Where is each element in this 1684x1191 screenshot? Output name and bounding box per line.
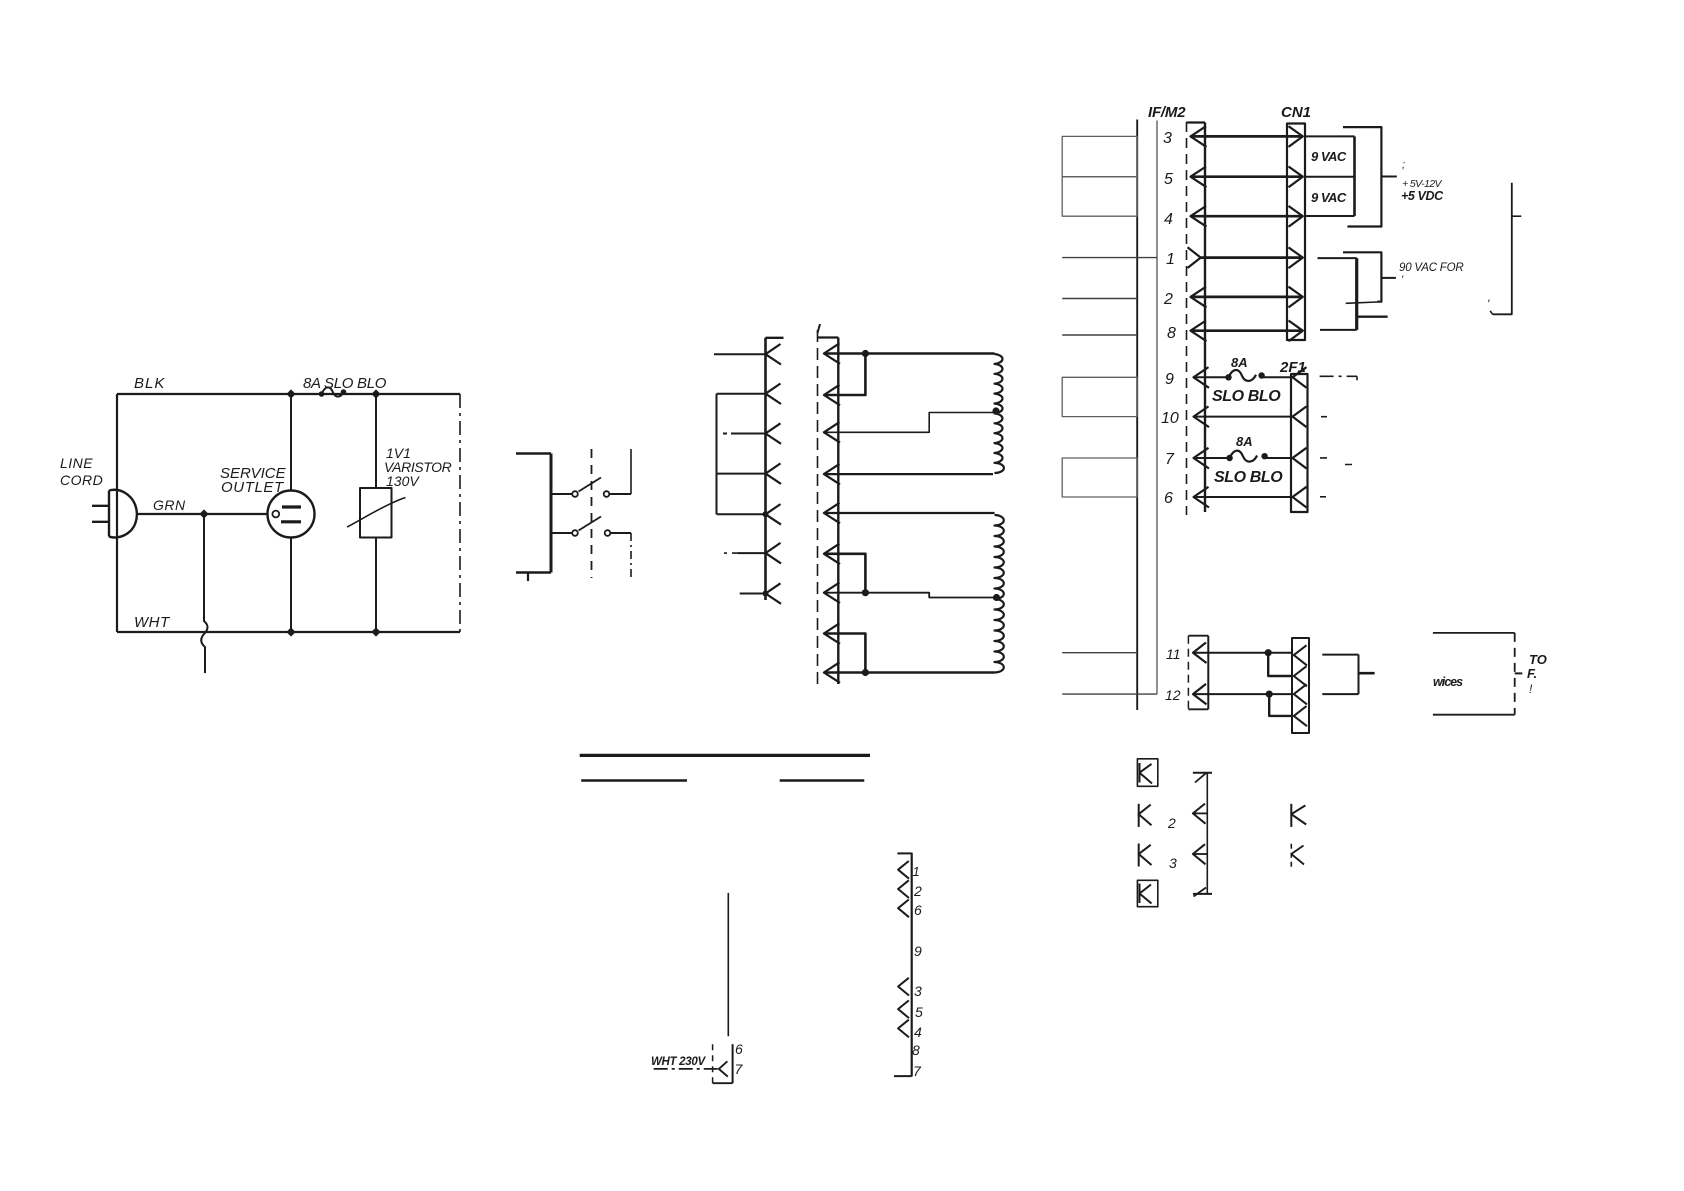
connector CN1 pin row2 arrow <box>1289 287 1303 308</box>
svg-text:wices: wices <box>1433 675 1463 689</box>
node dot winding1 tap <box>992 407 999 414</box>
wire primary pin4 to winding1 bottom <box>824 473 993 475</box>
wire CN1 row4 right <box>1306 215 1355 217</box>
wire WHT 230V dash-dot <box>654 1068 719 1070</box>
label J5 2 <box>1167 815 1176 831</box>
wire switch right upper <box>630 449 632 494</box>
label 90VAC mark <box>1401 274 1404 286</box>
service outlet J2 <box>268 491 315 538</box>
load box fan <box>1433 633 1522 715</box>
svg-text:5: 5 <box>1164 171 1173 188</box>
label 8A row 7 <box>1236 434 1253 449</box>
wire varistor bottom branch <box>375 538 377 633</box>
wire outlet bottom branch <box>290 538 292 633</box>
label GRN <box>153 497 186 513</box>
wire row 11 to J4 <box>1193 652 1292 654</box>
transformer T1 winding 2 <box>995 515 1004 673</box>
transformer core line upper <box>580 754 870 757</box>
connector J9 pin 3 arrow <box>898 978 909 996</box>
connector J2 pin 8 <box>824 623 840 644</box>
secondary wire row 11 <box>1062 652 1137 654</box>
connector J1 pin 5 <box>717 504 782 524</box>
svg-text:2: 2 <box>913 883 922 899</box>
connector CN1 pin row1 arrow <box>1289 247 1303 268</box>
wire stub right of 2F1 row 7 <box>1320 458 1352 465</box>
wire primary pin9 to winding2 bottom <box>824 671 995 674</box>
label IF/M2 pin 2 <box>1163 291 1173 308</box>
label pin 11 <box>1166 646 1181 662</box>
wire IF/M2 to CN1 row 8 <box>1191 329 1303 332</box>
connector J1 pin 2 <box>717 384 782 405</box>
svg-text:SLO BLO: SLO BLO <box>1214 469 1283 486</box>
svg-text:8A: 8A <box>1236 434 1253 449</box>
wire left vertical line cord hot <box>116 394 118 632</box>
fuse 8A SLO BLO row 9 <box>1194 370 1294 381</box>
node dot pin9 jumper <box>862 669 869 676</box>
label IF/M2 pin 6 <box>1164 490 1173 507</box>
svg-text:4: 4 <box>1164 211 1173 228</box>
connector J2 pin 5 <box>824 503 840 524</box>
label 9VAC upper <box>1311 149 1347 164</box>
transformer core line lower right <box>780 779 865 782</box>
switch S1 mechanical link dashed <box>591 449 593 578</box>
label SERVICE OUTLET <box>220 465 287 496</box>
secondary wire row 1 <box>1062 257 1157 259</box>
wire stub right of 2F1 row 9 <box>1320 376 1357 380</box>
label SLO BLO row 9 <box>1212 388 1281 405</box>
label J8 pin 7 <box>735 1061 744 1077</box>
wire 9VAC junction vertical <box>1353 136 1356 216</box>
svg-text:7: 7 <box>735 1061 744 1077</box>
fuse holder 2F1 pin row7 arrow <box>1293 448 1307 469</box>
svg-text:+5 VDC: +5 VDC <box>1401 189 1444 203</box>
node dot pin7 jumper <box>862 589 869 596</box>
wire row 10 <box>1194 416 1294 418</box>
wire primary pin1 to winding top <box>824 352 995 355</box>
wire jumper pin1-pin2 <box>824 354 866 396</box>
connector J2 solid body <box>818 338 839 685</box>
mark far right comma <box>1487 297 1490 311</box>
wire jumper pin6-pin7 <box>824 554 866 593</box>
secondary winding box rows 5-4 <box>1062 177 1137 217</box>
svg-text:3: 3 <box>914 983 922 999</box>
wire CN1 row3 right <box>1306 135 1355 137</box>
label LINE CORD <box>60 455 103 488</box>
label IF/M2 pin 3 <box>1163 130 1172 147</box>
connector J2 label tick <box>818 324 821 333</box>
svg-text:3: 3 <box>1169 855 1177 871</box>
label IF/M2 pin 9 <box>1165 371 1174 388</box>
node junction dot WHT/varistor <box>371 627 380 636</box>
connector J8 pin 7 arrow <box>719 1061 728 1076</box>
secondary winding box rows 3-5 <box>1062 136 1137 176</box>
node dot row 12 branch <box>1266 691 1273 698</box>
switch S1 frame left <box>516 454 551 582</box>
connector CN1 pin row3 arrow <box>1289 126 1303 147</box>
secondary wire row 2 <box>1062 298 1137 300</box>
label IF/M2 pin 10 <box>1161 410 1179 427</box>
svg-text:SLO BLO: SLO BLO <box>1212 388 1281 405</box>
svg-text:2: 2 <box>1163 291 1173 308</box>
fuse F1 8A SLO BLO <box>319 387 347 396</box>
connector J5 pin row2 <box>1139 804 1152 827</box>
secondary winding box rows 7-6 <box>1062 458 1137 497</box>
svg-text:9 VAC: 9 VAC <box>1311 149 1347 164</box>
label IF/M2 pin 5 <box>1164 171 1173 188</box>
svg-text:8: 8 <box>1167 325 1176 342</box>
connector CN1 pin row8 arrow <box>1289 321 1303 342</box>
svg-text:1: 1 <box>913 864 920 879</box>
connector IF/M2 pin 4 arrow <box>1191 206 1207 227</box>
bracket 90VAC group <box>1343 252 1396 303</box>
wire J1 bus pins 2-4-5 <box>716 394 718 515</box>
connector IF/M2 solid body <box>1187 123 1206 513</box>
connector J2 pin 7 <box>824 583 840 604</box>
label 1V1 VARISTOR 130V <box>384 445 452 489</box>
wire stub mid row1-8 <box>1357 316 1388 318</box>
wire row 11 branch down <box>1268 653 1292 676</box>
svg-text:5: 5 <box>915 1004 923 1020</box>
wire CN1 row8 right <box>1320 329 1357 331</box>
connector IF/M2 pin 9 arrow <box>1194 367 1210 388</box>
connector IF/M2 pin 3 arrow <box>1191 126 1207 147</box>
connector J1 pin 6 <box>724 543 781 564</box>
bracket far right <box>1490 183 1521 315</box>
svg-text:LINE: LINE <box>60 455 93 471</box>
connector J2 dashed body <box>817 330 819 684</box>
svg-text:4: 4 <box>914 1024 922 1040</box>
label SLO BLO row 7 <box>1214 469 1283 486</box>
wire stub right of 2F1 row 6 <box>1320 496 1326 498</box>
transformer core line lower left <box>581 779 687 782</box>
connector J3 pin 11 arrow <box>1193 643 1207 664</box>
label IF/M2 <box>1148 104 1186 121</box>
connector J3 body rows 11-12 <box>1188 636 1208 710</box>
svg-text:8A: 8A <box>1231 355 1248 370</box>
label J5 3 <box>1169 855 1177 871</box>
connector J1 pin 4 <box>717 463 782 484</box>
secondary bus vertical 2 <box>1156 121 1158 695</box>
svg-text:IF/M2: IF/M2 <box>1148 104 1186 121</box>
connector J4 pin b arrow <box>1294 666 1307 686</box>
svg-text:130V: 130V <box>386 473 420 489</box>
svg-text:2: 2 <box>1167 815 1176 831</box>
svg-text:8: 8 <box>912 1042 920 1058</box>
connector J4 pin a arrow <box>1294 645 1307 665</box>
label J9 9 <box>914 943 922 959</box>
svg-text:6: 6 <box>1164 490 1173 507</box>
label J9 8 <box>912 1042 920 1058</box>
svg-text:90 VAC FOR: 90 VAC FOR <box>1399 262 1463 274</box>
line cord plug P1 <box>92 490 137 538</box>
varistor RV1 1V1 <box>347 488 406 538</box>
connector J2 pin 3 <box>824 422 840 443</box>
connector J1 pin 3 <box>723 423 781 444</box>
svg-text:CORD: CORD <box>60 472 103 488</box>
connector IF/M2 pin 10 arrow <box>1194 406 1210 427</box>
svg-text:WHT: WHT <box>134 614 171 631</box>
wire CN1 row5 right <box>1306 176 1355 178</box>
wire row 12 to J4 <box>1193 693 1292 695</box>
connector J2 pin 1 <box>824 343 840 364</box>
wire IF/M2 to CN1 row 2 <box>1191 296 1303 299</box>
label WHT 230V <box>651 1056 706 1068</box>
connector IF/M2 pin 6 arrow <box>1194 487 1210 508</box>
wire IF/M2 to CN1 row 4 <box>1191 215 1303 218</box>
secondary wire row 12 <box>1062 693 1157 695</box>
label TO F <box>1527 652 1547 696</box>
label 9VAC lower <box>1311 190 1347 205</box>
connector J7 pin row3 <box>1291 844 1304 869</box>
node junction dot BLK/outlet branch <box>286 389 295 398</box>
svg-text:6: 6 <box>735 1041 743 1057</box>
node junction dot BLK/varistor branch <box>371 389 380 398</box>
label IF/M2 pin 7 <box>1165 451 1175 468</box>
label J9 3 <box>914 983 922 999</box>
svg-text:7: 7 <box>913 1063 922 1079</box>
connector J9 pin 4 arrow <box>898 1020 909 1038</box>
label J9 2 <box>913 883 922 899</box>
connector IF/M2 pin 1 arrow reversed <box>1188 247 1201 268</box>
fuse holder 2F1 body <box>1291 374 1308 512</box>
connector J4 pin d arrow <box>1294 706 1307 726</box>
label J9 4 <box>914 1024 922 1040</box>
svg-text:6: 6 <box>914 902 922 918</box>
label pin 12 <box>1165 687 1181 703</box>
wire varistor top branch <box>375 394 377 488</box>
wire J4 output upper <box>1322 654 1358 656</box>
connector CN1 pin row5 arrow <box>1289 167 1303 188</box>
connector J5 boxed pin top <box>1137 759 1157 787</box>
secondary winding box rows 9-10 <box>1062 377 1137 416</box>
label 90 VAC FOR <box>1399 262 1463 274</box>
connector J9 body <box>894 853 912 1077</box>
svg-text:1: 1 <box>1166 251 1175 268</box>
connector J1 pin 7 <box>740 583 781 604</box>
wire J4 output bracket <box>1359 655 1375 695</box>
node junction dot GRN branch <box>199 509 208 518</box>
wire ground branch with jog <box>201 514 207 673</box>
connector J8 WHT body <box>713 1044 733 1083</box>
connector J1 pin 1 <box>714 344 781 365</box>
svg-text:GRN: GRN <box>153 497 186 513</box>
connector J2 pin 6 <box>824 544 840 565</box>
connector J9 pin 5 arrow <box>898 1000 909 1018</box>
svg-text:8A SLO BLO: 8A SLO BLO <box>303 375 387 392</box>
wire GRN <box>137 513 268 515</box>
connector J6 pin4 arrow partial <box>1194 888 1207 897</box>
svg-text:BLK: BLK <box>134 375 165 392</box>
fuse holder 2F1 pin row10 arrow <box>1293 406 1307 427</box>
label fuse value 8A SLO BLO <box>303 375 387 392</box>
connector J6 pin1 arrow partial <box>1195 773 1207 783</box>
fuse 8A SLO BLO row 7 <box>1194 451 1294 462</box>
connector J3 pin 12 arrow <box>1193 684 1207 705</box>
connector J9 pin 2 arrow <box>898 880 909 898</box>
secondary bus vertical 1 <box>1136 120 1138 711</box>
connector CN1 body <box>1287 124 1305 341</box>
connector J5 boxed pin bottom <box>1137 880 1157 906</box>
connector IF/M2 pin 2 arrow <box>1191 287 1207 308</box>
label 8A row 9 <box>1231 355 1248 370</box>
bracket +5VDC group <box>1343 127 1397 226</box>
node dot row 11 branch <box>1265 649 1272 656</box>
fuse holder 2F1 pin row6 arrow <box>1293 487 1307 508</box>
wire row 6 <box>1194 496 1294 498</box>
svg-text:9: 9 <box>1165 371 1174 388</box>
wire jumper pin8-pin9 <box>824 634 866 673</box>
connector J1 body <box>766 338 784 600</box>
label J9 1 <box>913 864 920 879</box>
label +5VDC line1 <box>1402 159 1405 171</box>
connector IF/M2 dashed body <box>1186 122 1188 515</box>
wire vertical to WHT connector <box>727 893 729 1036</box>
label J8 pin 6 <box>735 1041 743 1057</box>
label IF/M2 pin 8 <box>1167 325 1176 342</box>
svg-text:10: 10 <box>1161 410 1179 427</box>
wire primary tap pin3 <box>824 413 995 433</box>
svg-text:CN1: CN1 <box>1281 104 1311 121</box>
wire stub right of 2F1 row 10 <box>1321 416 1327 418</box>
connector J6 pin3 arrow <box>1193 844 1207 864</box>
connector J6 pin2 arrow <box>1193 804 1207 824</box>
svg-text:WHT 230V: WHT 230V <box>651 1056 706 1068</box>
connector J4 body <box>1292 638 1309 733</box>
connector IF/M2 pin 7 arrow <box>1194 448 1210 469</box>
connector J6 body <box>1193 773 1212 894</box>
label J9 7 <box>913 1063 922 1079</box>
secondary wire row 8 <box>1062 334 1137 336</box>
wire BLK top rail <box>117 393 460 395</box>
svg-text:TO: TO <box>1529 652 1547 667</box>
wire IF/M2 to CN1 row 3 <box>1191 135 1303 138</box>
wire IF/M2 to CN1 row 1 <box>1201 256 1303 259</box>
svg-text:12: 12 <box>1165 687 1181 703</box>
svg-text:11: 11 <box>1166 646 1181 662</box>
svg-text:F.: F. <box>1527 666 1537 681</box>
wire J4 output lower <box>1322 693 1358 695</box>
label IF/M2 pin 1 <box>1166 251 1175 268</box>
wire row 12 branch down <box>1269 694 1292 716</box>
wire CN1 row1 right <box>1318 257 1357 259</box>
wire primary tap pin7 <box>824 593 995 598</box>
label load box script <box>1433 675 1463 689</box>
connector IF/M2 pin 8 arrow <box>1191 321 1207 342</box>
node junction dot WHT/outlet <box>286 627 295 636</box>
connector J2 pin 9 <box>824 662 840 683</box>
wire rows1-8 junction vertical <box>1355 258 1358 330</box>
svg-text:OUTLET: OUTLET <box>221 479 285 496</box>
wire IF/M2 to CN1 row 5 <box>1191 175 1303 178</box>
svg-text:7: 7 <box>1165 451 1175 468</box>
transformer T1 winding 1 <box>995 354 1004 473</box>
fuse holder 2F1 pin row9 arrow <box>1293 367 1307 388</box>
label 2F1 <box>1279 359 1306 376</box>
label BLK <box>134 375 165 392</box>
wire outlet top branch <box>290 394 292 491</box>
label J9 5 <box>915 1004 923 1020</box>
wire right vertical rail <box>459 394 461 632</box>
wire primary pin5 to winding2 top <box>824 512 995 514</box>
connector J4 pin c arrow <box>1294 684 1307 704</box>
wire switch right lower dash-dot <box>630 533 632 578</box>
svg-text:;: ; <box>1402 159 1405 171</box>
connector J9 pin 1 arrow <box>898 861 909 879</box>
label IF/M2 pin 4 <box>1164 211 1173 228</box>
label CN1 <box>1281 104 1311 121</box>
svg-text:9 VAC: 9 VAC <box>1311 190 1347 205</box>
connector IF/M2 pin 5 arrow <box>1191 167 1207 188</box>
svg-text:3: 3 <box>1163 130 1172 147</box>
label +5VDC line2 <box>1402 178 1442 190</box>
wire WHT bottom rail <box>117 631 460 633</box>
node dot winding2 tap <box>993 594 1000 601</box>
switch S1 pole 2 <box>551 517 631 536</box>
connector J5 pin row3 <box>1139 844 1152 867</box>
node dot pin1 jumper <box>862 350 869 357</box>
connector J2 pin 2 <box>824 385 840 406</box>
switch S1 pole 1 <box>551 478 631 497</box>
connector CN1 pin row4 arrow <box>1289 206 1303 227</box>
label WHT <box>134 614 171 631</box>
connector J9 pin 6 arrow <box>898 900 909 918</box>
connector J7 pin row2 <box>1291 804 1306 827</box>
label J9 6 <box>914 902 922 918</box>
label +5VDC <box>1401 189 1444 203</box>
connector J2 pin 4 <box>824 464 840 485</box>
svg-text:9: 9 <box>914 943 922 959</box>
